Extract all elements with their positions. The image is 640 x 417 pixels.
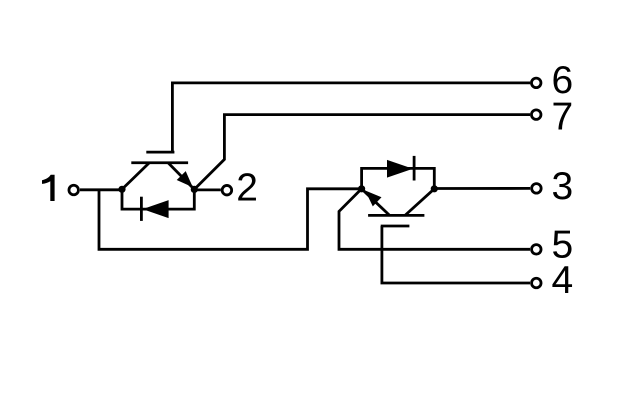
transistor Q2 gate electrode	[381, 225, 410, 228]
wire emitter E1 to pin 7	[194, 115, 530, 190]
transistor Q1 emitter arrowhead	[177, 171, 193, 187]
transistor Q2 emitter arrowhead	[365, 191, 381, 207]
wire emitter E1 to pin 2	[194, 188, 221, 191]
diode D2 cathode bar	[413, 156, 416, 181]
wire collector C2 to pin 3	[434, 187, 530, 190]
node: Q2 emitter junction	[358, 185, 365, 192]
wire pin1 branch down	[99, 189, 361, 250]
terminal 1	[69, 185, 79, 195]
terminal 5	[532, 245, 542, 255]
diode D1 arrow triangle	[143, 200, 169, 218]
transistor Q1 gate electrode	[146, 151, 174, 154]
wire pin1 to collector node	[80, 188, 122, 191]
transistor Q2 body bar	[368, 214, 424, 217]
transistor Q2 emitter diagonal	[362, 189, 390, 216]
terminal 6	[531, 78, 541, 88]
terminal 4	[532, 278, 542, 288]
svg-text:3: 3	[552, 165, 574, 208]
svg-text:7: 7	[552, 96, 574, 139]
svg-text:4: 4	[552, 259, 574, 302]
wire to Q2 emitter node from pin5 elbow	[339, 189, 530, 250]
transistor Q1 emitter diagonal	[168, 163, 194, 190]
wire gate G1 to pin 6	[172, 83, 530, 152]
transistor Q1 collector diagonal	[122, 163, 149, 190]
diode D1 loop	[122, 189, 194, 209]
svg-text:2: 2	[236, 166, 258, 209]
diode D1 cathode bar	[140, 197, 143, 221]
wire gate G2 to pin 4	[382, 226, 530, 283]
transistor Q2 collector diagonal	[405, 189, 434, 216]
terminal 3	[532, 184, 542, 194]
node: Q1 emitter junction	[191, 186, 198, 193]
label pin 1	[42, 175, 55, 201]
node: Q2 collector junction	[431, 185, 438, 192]
diode D2 arrow triangle	[387, 160, 413, 178]
transistor Q1 body bar	[131, 161, 188, 164]
terminal 7	[531, 110, 541, 120]
diode D2 loop	[362, 168, 435, 188]
terminal 2	[222, 185, 232, 195]
node: Q1 collector junction	[118, 186, 125, 193]
